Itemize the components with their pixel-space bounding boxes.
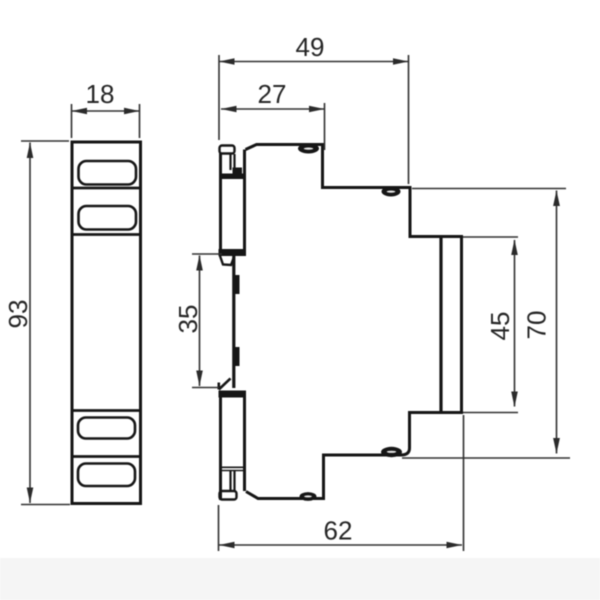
top terminal block left edge: [219, 153, 222, 256]
dim 18 line: [72, 110, 140, 112]
svg-text:35: 35: [173, 305, 203, 334]
dim 49 extension lines: [219, 55, 409, 184]
dim 35 extension lines: [192, 254, 222, 388]
svg-text:27: 27: [258, 79, 287, 109]
dim 27 line: [221, 108, 325, 110]
dim 27 arrows: [221, 106, 237, 113]
dim 35 line: [199, 256, 201, 387]
side view inner panel line: [439, 238, 442, 411]
rail nub upper: [234, 275, 240, 294]
svg-text:45: 45: [485, 312, 515, 341]
dim 70 extension lines: [402, 189, 570, 459]
bottom gray band: [0, 558, 600, 600]
dim 93 arrows: [27, 143, 34, 159]
top terminal block right edge: [243, 150, 246, 257]
top clamp block: [233, 168, 243, 177]
dim 93 line: [29, 143, 31, 504]
top screw head: [220, 146, 235, 154]
bottom screw head: [220, 491, 237, 500]
dim 49 arrows: [219, 58, 235, 65]
dim 45 line: [514, 240, 516, 407]
rail nub lower: [234, 347, 240, 366]
dim 18 arrows: [72, 108, 88, 115]
bottom terminal block right edge: [243, 391, 246, 491]
terminal slot 1: [79, 161, 137, 185]
svg-text:49: 49: [296, 32, 325, 62]
dim 93 extension lines: [21, 141, 70, 505]
front view divider line 1: [72, 187, 141, 190]
dim 70 line: [556, 191, 558, 454]
dim 45 extension lines: [463, 237, 518, 413]
svg-text:18: 18: [86, 79, 115, 109]
dim 27 extension line right: [324, 103, 326, 150]
svg-text:62: 62: [324, 516, 353, 546]
din rail recess vertical: [232, 255, 235, 388]
bottom terminal block left edge: [219, 391, 222, 500]
rivet top-left: [298, 144, 319, 154]
dim 62 arrows: [219, 542, 235, 549]
bottom screw shank: [231, 471, 235, 491]
terminal slot 4: [78, 464, 135, 487]
svg-text:93: 93: [3, 300, 33, 329]
dim 49 line: [219, 61, 409, 63]
rivet top-right: [382, 187, 401, 197]
bottom rail hook: [219, 378, 231, 389]
bottom block divider: [221, 467, 244, 470]
front view divider line 4: [72, 455, 141, 458]
dim 70 arrows: [553, 191, 560, 207]
terminal slot 2: [79, 206, 137, 230]
front view outer body: [72, 142, 141, 504]
dim 45 arrows: [511, 240, 518, 256]
top block bottom band: [219, 249, 247, 256]
dim 18 extension lines: [72, 104, 140, 138]
side view main outline: [246, 145, 462, 499]
svg-text:70: 70: [522, 311, 552, 340]
rivet bottom-right: [381, 447, 402, 457]
rivet bottom-left: [300, 492, 317, 501]
front view divider line 3: [72, 409, 141, 412]
dim 62 extension lines: [219, 415, 464, 551]
top screw shank: [231, 154, 235, 172]
front view divider line 2: [72, 233, 141, 236]
bottom block top band: [219, 391, 247, 398]
top block clamp band: [219, 174, 246, 180]
dim 35 arrows: [196, 255, 203, 271]
dim 62 line: [219, 544, 462, 546]
terminal slot 3: [78, 418, 135, 439]
top rail hook: [220, 255, 234, 266]
